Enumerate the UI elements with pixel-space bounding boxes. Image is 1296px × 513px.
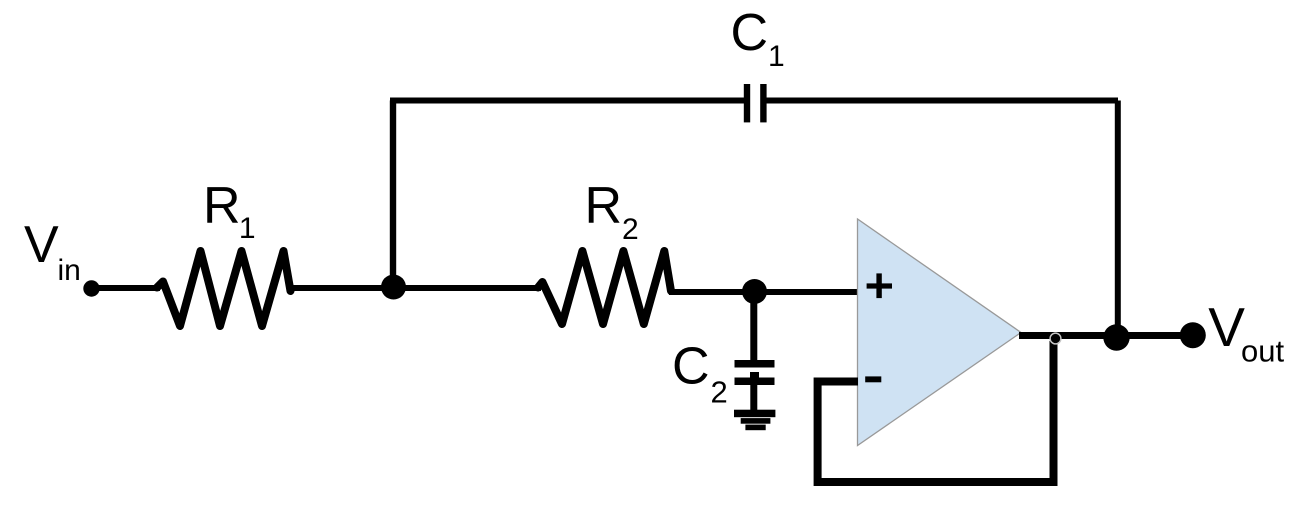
svg-text:out: out: [1241, 334, 1284, 369]
svg-text:C: C: [672, 338, 710, 396]
svg-text:R: R: [203, 177, 241, 235]
svg-text:2: 2: [711, 375, 728, 410]
svg-text:C: C: [731, 4, 769, 62]
svg-text:1: 1: [768, 40, 785, 73]
svg-text:V: V: [24, 216, 59, 274]
svg-text:in: in: [58, 254, 81, 287]
svg-text:2: 2: [622, 213, 639, 246]
svg-text:1: 1: [239, 212, 256, 245]
svg-text:V: V: [1208, 296, 1245, 358]
svg-text:R: R: [585, 177, 623, 235]
